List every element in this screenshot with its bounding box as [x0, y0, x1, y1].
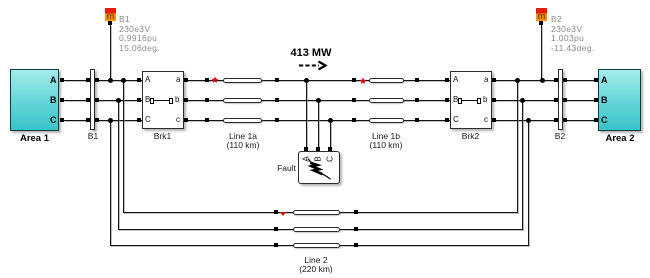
- node fault A junction: [304, 78, 309, 83]
- port Line1b left A: [352, 78, 356, 82]
- wire loop right vertical phase A: [517, 80, 518, 213]
- port Area2 A: [594, 78, 598, 82]
- port Brk1 C: [137, 118, 141, 122]
- wire loop bottom horizontal phase A: [123, 212, 518, 213]
- port Line1a left A: [205, 78, 209, 82]
- fault lightning bolt: [298, 151, 338, 184]
- port B1 left B: [86, 98, 90, 102]
- port Brk2 c: [492, 118, 496, 122]
- node loop B left junction: [116, 98, 121, 103]
- port Line1b right A: [415, 78, 419, 82]
- pill Line1b phase C: [369, 118, 404, 123]
- port Brk1 B: [137, 98, 141, 102]
- label B2 measurement text: [551, 15, 595, 54]
- wire loop left vertical phase B: [118, 100, 119, 230]
- port Line2 left A: [274, 210, 278, 214]
- breaker Brk2 contact symbol: [458, 98, 462, 104]
- port B2 left A: [554, 78, 558, 82]
- red signal marker Line2: [280, 212, 286, 216]
- port B2 right C: [563, 118, 567, 122]
- port Line1b left C: [352, 118, 356, 122]
- port Brk1 a: [184, 78, 188, 82]
- port Line1a right C: [275, 118, 279, 122]
- source block Area 2: [598, 69, 641, 131]
- node fault B junction: [316, 98, 321, 103]
- fault block Fault: [298, 151, 340, 184]
- port B1 measurement: [108, 21, 112, 25]
- port Line1b right B: [415, 98, 419, 102]
- wire B2 measurement tap: [541, 25, 542, 81]
- wire B1 measurement tap: [110, 25, 111, 81]
- port B1 right B: [95, 98, 99, 102]
- port Fault C: [328, 147, 332, 151]
- wire phase B main run: [64, 100, 595, 101]
- pill Line1a phase A: [223, 78, 262, 83]
- fault port letters rotated: [303, 156, 311, 163]
- port Brk2 b: [492, 98, 496, 102]
- pill Line2 phase B: [293, 227, 340, 232]
- source block Area 1: [10, 69, 59, 131]
- wire loop right vertical phase B: [522, 100, 523, 230]
- measurement icon B1: [105, 8, 117, 21]
- wire loop left vertical phase C: [110, 120, 111, 246]
- svg-text:m: m: [106, 11, 114, 21]
- port Line1a right A: [275, 78, 279, 82]
- node loop A left junction: [121, 78, 126, 83]
- port Line2 right B: [354, 227, 358, 231]
- port Brk2 A: [445, 78, 449, 82]
- node loop B right junction: [520, 98, 525, 103]
- pill Line1b phase A: [369, 78, 404, 83]
- port Line1b left B: [352, 98, 356, 102]
- svg-text:m: m: [537, 11, 545, 21]
- port B2 left C: [554, 118, 558, 122]
- pill Line1a phase B: [223, 98, 262, 103]
- port B1 right A: [95, 78, 99, 82]
- red signal marker Line1a: [211, 76, 219, 84]
- port Line1a right B: [275, 98, 279, 102]
- port B2 right A: [563, 78, 567, 82]
- port Area1 C: [60, 118, 64, 122]
- port Area2 C: [594, 118, 598, 122]
- pill Line2 phase C: [293, 243, 340, 248]
- port B1 right C: [95, 118, 99, 122]
- port Brk2 C: [445, 118, 449, 122]
- port Line2 left C: [274, 243, 278, 247]
- wire fault tap phase B: [318, 100, 319, 149]
- wire loop right vertical phase C: [528, 120, 529, 246]
- measurement icon B2: [536, 8, 548, 21]
- port Brk1 A: [137, 78, 141, 82]
- wire fault tap phase C: [330, 120, 331, 149]
- wire phase A main run: [64, 80, 595, 81]
- port B2 measurement: [539, 21, 543, 25]
- bus bar B1: [90, 69, 95, 130]
- annotation arrow: [296, 58, 332, 73]
- node loop A right junction: [515, 78, 520, 83]
- bus bar B2: [558, 69, 563, 130]
- node B2 tap junction: [540, 78, 545, 83]
- node fault C junction: [328, 118, 333, 123]
- port Line2 left B: [274, 227, 278, 231]
- breaker Brk1: [142, 71, 184, 129]
- port Line2 right C: [354, 243, 358, 247]
- pill Line1a phase C: [223, 118, 262, 123]
- red signal marker Line1b: [359, 77, 367, 85]
- port Line1b right C: [415, 118, 419, 122]
- port B1 left C: [86, 118, 90, 122]
- port B1 left A: [86, 78, 90, 82]
- port B2 left B: [554, 98, 558, 102]
- port B2 right B: [563, 98, 567, 102]
- port Brk2 a: [492, 78, 496, 82]
- node loop C left junction: [108, 118, 113, 123]
- port Line1a left C: [205, 118, 209, 122]
- wire phase C main run: [64, 120, 595, 121]
- wire loop bottom horizontal phase C: [110, 245, 528, 246]
- port Brk1 c: [184, 118, 188, 122]
- pill Line2 phase A: [293, 210, 340, 215]
- node B1 tap junction: [108, 78, 113, 83]
- annotation 413 MW: [280, 47, 342, 59]
- node loop C right junction: [526, 118, 531, 123]
- pill Line1b phase B: [369, 98, 404, 103]
- port Line2 right A: [354, 210, 358, 214]
- label Fault: [272, 164, 296, 174]
- label B1 measurement text: [119, 15, 160, 54]
- wire loop left vertical phase A: [123, 80, 124, 213]
- wire fault tap phase A: [306, 80, 307, 149]
- wire loop bottom horizontal phase B: [118, 229, 523, 230]
- port Area1 B: [60, 98, 64, 102]
- port Area2 B: [594, 98, 598, 102]
- port Area1 A: [60, 78, 64, 82]
- port Fault B: [316, 147, 320, 151]
- breaker Brk2: [450, 71, 492, 129]
- port Brk2 B: [445, 98, 449, 102]
- port Line1a left B: [205, 98, 209, 102]
- breaker Brk1 contact symbol: [150, 98, 154, 104]
- port Brk1 b: [184, 98, 188, 102]
- port Fault A: [304, 147, 308, 151]
